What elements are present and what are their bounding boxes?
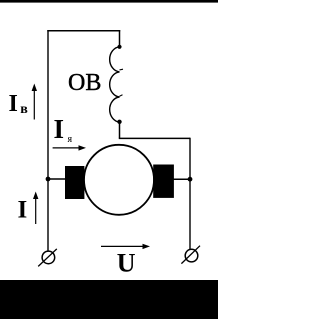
top border line <box>0 0 218 3</box>
wire left brush lead <box>48 178 66 180</box>
caption bar <box>0 280 218 319</box>
arrow U right <box>101 245 144 247</box>
svg-text:I: I <box>9 91 18 117</box>
wire coil top stem <box>119 30 121 47</box>
svg-text:я: я <box>68 134 73 145</box>
wire right brush lead <box>174 178 191 180</box>
wire coil bottom stem <box>119 122 121 139</box>
svg-text:I: I <box>54 114 65 144</box>
svg-text:Рис. 1.31: Рис. 1.31 <box>70 288 149 305</box>
arrow I_ya right <box>53 147 80 149</box>
arrow I_v up <box>33 90 35 120</box>
node right junction <box>188 177 193 182</box>
arrow I up <box>35 198 37 225</box>
coil cusp tick 2 <box>120 95 123 96</box>
node coil bottom <box>117 120 121 124</box>
wire top horizontal <box>47 30 120 32</box>
node coil top <box>117 45 121 49</box>
terminal right <box>185 249 198 262</box>
wire right vertical <box>189 138 191 250</box>
wire horizontal coil to right <box>119 137 190 139</box>
svg-text:в: в <box>20 102 28 117</box>
brush right <box>153 165 174 198</box>
inductor OV (excitation winding) <box>110 47 120 122</box>
node left junction <box>46 177 51 182</box>
coil cusp tick 1 <box>120 68 124 71</box>
svg-text:ОВ: ОВ <box>68 70 101 96</box>
terminal left <box>42 251 55 264</box>
svg-text:I: I <box>18 196 28 223</box>
svg-text:U: U <box>117 249 136 278</box>
wire left vertical <box>47 30 49 252</box>
brush left <box>65 166 84 199</box>
motor armature circle M <box>84 145 154 215</box>
